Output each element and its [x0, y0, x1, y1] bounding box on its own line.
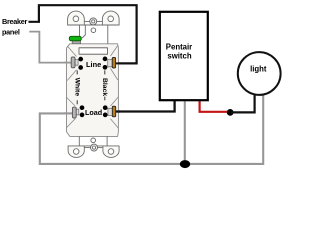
tick marks between rows: [76, 70, 78, 74]
yoke top strap: [68, 24, 120, 26]
screw top center: [90, 18, 97, 25]
wire black: timer Load terminal to Pentair switch: [115, 100, 174, 112]
wire black hot: breaker panel to timer Line terminal: [29, 5, 137, 63]
wire black stub into Line right screw: [115, 62, 121, 64]
Pentair switch box: [160, 12, 208, 100]
yoke bottom strap: [68, 145, 119, 147]
small hole below top screw: [91, 28, 96, 33]
terminal screw Line left (white neutral side): [75, 60, 78, 66]
display window: [79, 48, 108, 54]
mounting ear bottom-right: [103, 146, 119, 158]
yoke top sides: [79, 25, 81, 36]
small hole above bottom screw: [91, 138, 96, 143]
wire black: junction A to light: [231, 95, 255, 113]
svg-text:switch: switch: [167, 51, 191, 60]
yoke bottom sides: [78, 136, 80, 146]
mounting ear top-left: [68, 11, 85, 25]
svg-text:Load: Load: [85, 108, 102, 117]
svg-text:light: light: [250, 65, 267, 74]
body: [67, 44, 119, 137]
terminal dots Line right: [103, 57, 108, 62]
wire gray neutral: panel to timer Line left terminal: [29, 32, 72, 63]
override button base: [72, 40, 80, 44]
wire gray stub into Line left screw: [64, 62, 74, 64]
terminal screw Load left (white neutral side): [76, 109, 79, 115]
svg-text:Pentair: Pentair: [166, 42, 192, 51]
timer switch device: [64, 11, 120, 157]
junction neutral bus node: [180, 160, 190, 168]
mounting ear bottom-left: [68, 146, 84, 158]
light (lamp circle): [238, 52, 281, 95]
terminal dots Load left: [80, 105, 85, 110]
node Breaker panel label: [2, 17, 28, 37]
wire red: Pentair switch to junction A: [200, 100, 229, 112]
svg-text:Line: Line: [86, 60, 101, 69]
wire gray neutral bus: timer Load left terminal, down, along bottom, up to light: [40, 95, 263, 164]
terminal screw Line right (hot, brass): [108, 60, 113, 67]
terminal screw Load right (hot, brass): [108, 108, 113, 115]
terminal dots Load right: [103, 105, 108, 110]
svg-text:White: White: [73, 78, 80, 97]
svg-text:Breaker: Breaker: [2, 17, 28, 26]
svg-text:Black: Black: [101, 78, 108, 96]
junction node A (red/black splice): [227, 109, 234, 116]
wire black stub into Load right screw: [115, 110, 121, 112]
bevel lines: [66, 46, 118, 129]
screw bottom center: [91, 144, 98, 151]
wire gray stub into Load left screw: [64, 112, 75, 114]
svg-text:panel: panel: [2, 28, 20, 37]
override button (green): [69, 36, 81, 41]
wire gray neutral: Pentair switch down to bottom bus: [184, 100, 186, 164]
terminal dots Line left: [78, 57, 83, 62]
mounting ear top-right: [102, 11, 119, 25]
